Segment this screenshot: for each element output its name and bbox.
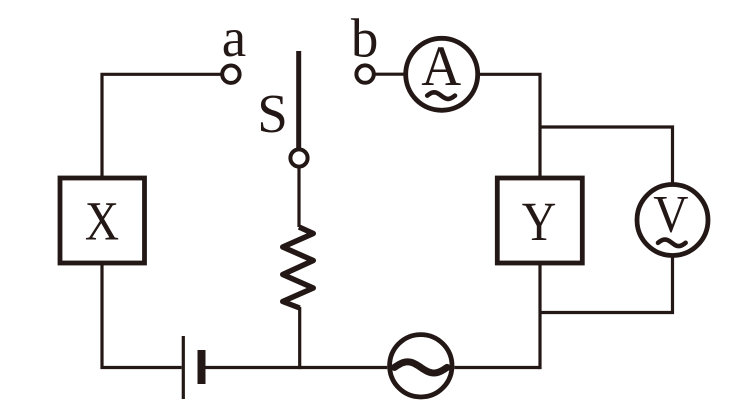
svg-text:A: A	[421, 35, 461, 98]
svg-text:X: X	[85, 190, 119, 251]
svg-text:a: a	[222, 7, 246, 68]
svg-text:S: S	[257, 83, 288, 144]
svg-text:b: b	[351, 8, 379, 69]
svg-text:Y: Y	[522, 191, 557, 252]
svg-text:V: V	[653, 186, 688, 244]
